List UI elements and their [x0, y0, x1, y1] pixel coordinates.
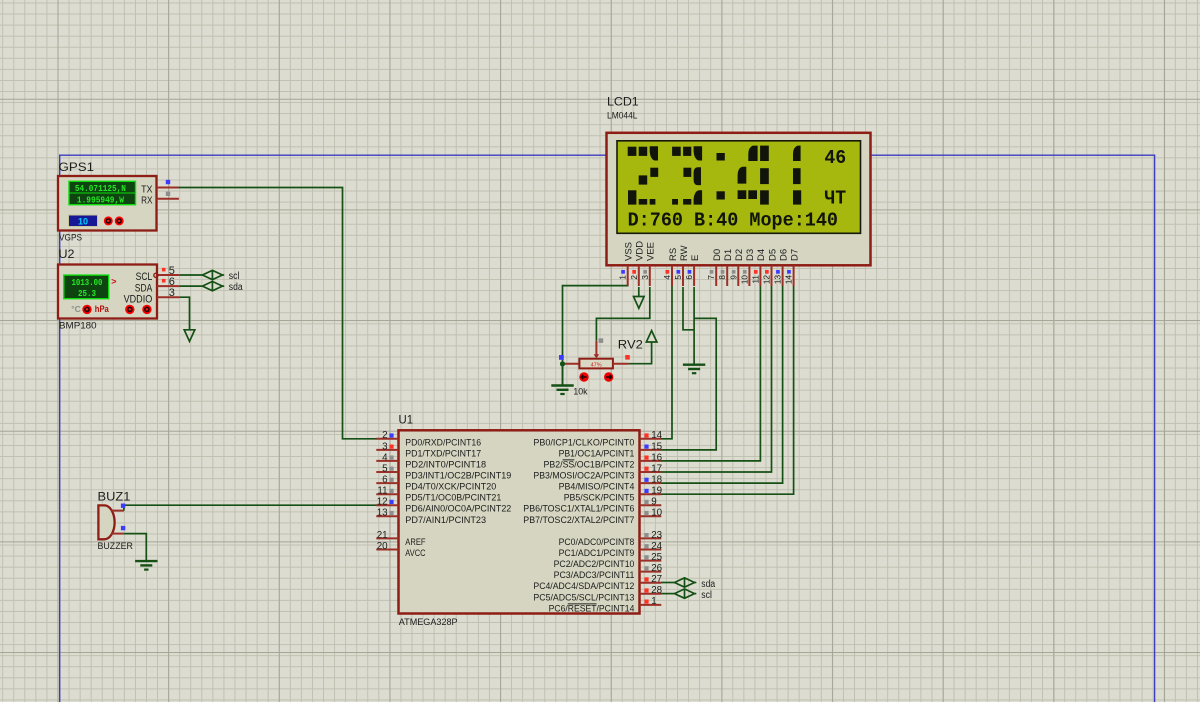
- svg-text:27: 27: [651, 574, 662, 585]
- U1 pin 20 AVCC: [376, 549, 398, 551]
- LCD1 pin 14 D7: [793, 266, 795, 286]
- svg-text:PB6/TOSC1/XTAL1/PCINT6: PB6/TOSC1/XTAL1/PCINT6: [523, 504, 634, 515]
- svg-text:LCD1: LCD1: [607, 97, 639, 109]
- svg-text:PC3/ADC3/PCINT11: PC3/ADC3/PCINT11: [554, 570, 635, 581]
- ground (buzzer): [135, 561, 157, 570]
- LCD1 pin 1 VSS: [627, 266, 629, 286]
- wire U2 VDDIO to power: [179, 297, 189, 330]
- svg-text:PB4/MISO/PCINT4: PB4/MISO/PCINT4: [559, 482, 635, 493]
- svg-text:PB3/MOSI/OC2A/PCINT3: PB3/MOSI/OC2A/PCINT3: [533, 471, 634, 482]
- svg-text:4: 4: [663, 275, 672, 280]
- svg-text:1: 1: [619, 275, 628, 280]
- LCD1 big digits 23:41: [628, 146, 802, 205]
- svg-text:17: 17: [651, 463, 662, 474]
- svg-text:RW: RW: [679, 245, 690, 261]
- LCD1 pin 4 RS: [671, 266, 673, 286]
- LCD1 pin 10 D3: [748, 266, 750, 286]
- svg-text:46: 46: [824, 147, 846, 169]
- U1 pin 4 PD2/INT0/PCINT18: [376, 460, 398, 462]
- svg-text:54.071125,N: 54.071125,N: [75, 183, 126, 194]
- U2 pin VDDIO (pin 3): [157, 296, 179, 298]
- svg-text:5: 5: [382, 463, 388, 474]
- wire U2 SCL to scl terminal: [179, 274, 202, 276]
- wire RV2 right terminal to power: [629, 342, 652, 364]
- svg-text:14: 14: [651, 430, 662, 441]
- wire BUZ1 top pin to U1 PD6: [124, 505, 377, 510]
- wire LCD D4 to U1 PB2: [661, 286, 760, 461]
- U1 pin 18 PB4/MISO/PCINT4: [640, 482, 662, 484]
- svg-text:26: 26: [651, 563, 662, 574]
- svg-text:PB0/ICP1/CLKO/PCINT0: PB0/ICP1/CLKO/PCINT0: [533, 437, 634, 448]
- wire RV2 left terminal rail: [563, 363, 580, 365]
- U1 pin 6 PD4/T0/XCK/PCINT20: [376, 482, 398, 484]
- LCD LCD1 LM044L body: [607, 133, 871, 265]
- svg-text:15: 15: [651, 441, 662, 452]
- U1 pin 1 PC6/RESET/PCINT14: [640, 604, 662, 606]
- GPS1 display: [69, 181, 136, 204]
- U2 display: [64, 275, 109, 299]
- svg-text:PB2/SS/OC1B/PCINT2: PB2/SS/OC1B/PCINT2: [544, 459, 635, 470]
- U1 pin 26 PC3/ADC3/PCINT11: [640, 571, 662, 573]
- svg-text:PD6/AIN0/OC0A/PCINT22: PD6/AIN0/OC0A/PCINT22: [405, 504, 511, 515]
- LCD1 pin 8 D1: [726, 266, 728, 286]
- RV2 wiper: [595, 341, 597, 355]
- svg-text:ЧТ: ЧТ: [824, 187, 846, 209]
- wire U1 PC4/SDA to sda terminal: [661, 582, 675, 584]
- svg-text:24: 24: [651, 541, 662, 552]
- svg-text:PB7/TOSC2/XTAL2/PCINT7: PB7/TOSC2/XTAL2/PCINT7: [523, 515, 634, 526]
- svg-text:PC2/ADC2/PCINT10: PC2/ADC2/PCINT10: [554, 559, 635, 570]
- U1 pin 14 PB0/ICP1/CLKO/PCINT0: [640, 438, 662, 440]
- LCD1 pin 2 VDD: [638, 266, 640, 286]
- U1 pin 16 PB2/SS/OC1B/PCINT2: [640, 460, 662, 462]
- svg-text:PD0/RXD/PCINT16: PD0/RXD/PCINT16: [405, 437, 481, 448]
- svg-text:RS: RS: [668, 248, 679, 261]
- LCD1 pin 12 D5: [771, 266, 773, 286]
- svg-text:RX: RX: [141, 196, 152, 207]
- svg-text:hPa: hPa: [95, 304, 110, 315]
- svg-text:13: 13: [377, 508, 388, 519]
- svg-text:BUZZER: BUZZER: [98, 541, 134, 551]
- svg-text:VGPS: VGPS: [59, 233, 82, 243]
- potentiometer RV2 body: [579, 359, 613, 369]
- terminal scl (U1 side): [675, 589, 695, 599]
- svg-text:scl: scl: [229, 271, 240, 282]
- buzzer BUZ1 body: [98, 505, 114, 539]
- svg-text:2: 2: [382, 430, 387, 441]
- LCD1 pin 11 D4: [759, 266, 761, 286]
- svg-text:3: 3: [169, 287, 175, 299]
- svg-text:GPS1: GPS1: [59, 162, 95, 174]
- svg-text:12: 12: [377, 497, 388, 508]
- svg-text:U2: U2: [59, 249, 75, 261]
- sensor U2 BMP180 body: [58, 265, 157, 319]
- wire U2 SDA to sda terminal: [179, 285, 202, 287]
- wire LCD VEE (pin3) to RV2 wiper: [596, 287, 649, 341]
- U1 pin 28 PC5/ADC5/SCL/PCINT13: [640, 593, 662, 595]
- svg-text:D7: D7: [789, 249, 800, 261]
- U2 pin SCL (pin 5): [157, 274, 179, 276]
- svg-text:ATMEGA328P: ATMEGA328P: [399, 617, 458, 628]
- svg-text:10: 10: [78, 216, 88, 226]
- svg-text:11: 11: [377, 486, 387, 497]
- wire LCD RS (pin4) to U1 PB0: [661, 286, 672, 439]
- svg-text:16: 16: [651, 452, 662, 463]
- svg-text:23: 23: [651, 530, 662, 541]
- svg-text:VDDIO: VDDIO: [124, 293, 153, 305]
- svg-text:3: 3: [382, 441, 388, 452]
- svg-text:D6: D6: [778, 249, 789, 261]
- svg-text:PC1/ADC1/PCINT9: PC1/ADC1/PCINT9: [559, 548, 635, 559]
- svg-text:scl: scl: [701, 590, 712, 601]
- svg-text:D0: D0: [712, 249, 723, 261]
- svg-text:10: 10: [740, 275, 749, 285]
- U1 pin 24 PC1/ADC1/PCINT9: [640, 549, 662, 551]
- svg-text:D1: D1: [723, 249, 734, 261]
- svg-text:4: 4: [382, 452, 388, 463]
- power terminal (RV2): [646, 331, 657, 342]
- U2 pin SDA (pin 6): [157, 285, 179, 287]
- svg-text:E: E: [690, 255, 701, 261]
- wire LCD RW (pin5) to ground: [683, 287, 694, 330]
- BUZ1 bottom pin: [111, 533, 124, 535]
- svg-text:PD2/INT0/PCINT18: PD2/INT0/PCINT18: [405, 459, 486, 470]
- RV2 right terminal: [613, 363, 629, 365]
- svg-text:12: 12: [763, 275, 772, 285]
- svg-text:10: 10: [651, 508, 662, 519]
- GPS module GPS1 body: [58, 176, 157, 231]
- GPS1 pin RX: [157, 198, 179, 200]
- svg-text:1.995949,W: 1.995949,W: [77, 195, 124, 206]
- svg-text:PC0/ADC0/PCINT8: PC0/ADC0/PCINT8: [559, 537, 635, 548]
- LCD1 pin 5 RW: [682, 266, 684, 286]
- svg-text:6: 6: [685, 275, 694, 280]
- terminal scl (U2 side): [202, 270, 222, 280]
- wire RV2 bottom rail to ground: [562, 364, 564, 385]
- svg-text:RV2: RV2: [618, 339, 643, 351]
- svg-text:sda: sda: [229, 282, 243, 293]
- svg-text:PD7/AIN1/PCINT23: PD7/AIN1/PCINT23: [405, 515, 486, 526]
- svg-text:11: 11: [751, 275, 760, 284]
- U1 pin 13 PD7/AIN1/PCINT23: [376, 515, 398, 517]
- MCU U1 ATMEGA328P body: [399, 430, 640, 613]
- svg-text:PD1/TXD/PCINT17: PD1/TXD/PCINT17: [405, 448, 481, 459]
- U1 pin 2 PD0/RXD/PCINT16: [376, 438, 398, 440]
- wire LCD E (pin6) to U1 PB1: [693, 287, 695, 364]
- LCD1 pin 6 E: [693, 266, 695, 286]
- svg-text:1013.00: 1013.00: [72, 277, 103, 288]
- svg-text:5: 5: [674, 275, 683, 280]
- LCD1 screen: [617, 141, 861, 234]
- wire U1 PC5/SCL to scl terminal: [661, 593, 675, 595]
- svg-text:19: 19: [651, 486, 662, 497]
- svg-text:LM044L: LM044L: [607, 110, 638, 120]
- U1 pin 5 PD3/INT1/OC2B/PCINT19: [376, 471, 398, 473]
- svg-text:TX: TX: [141, 184, 152, 195]
- svg-text:PC5/ADC5/SCL/PCINT13: PC5/ADC5/SCL/PCINT13: [533, 592, 634, 603]
- svg-text:13: 13: [774, 275, 783, 285]
- svg-text:VDD: VDD: [635, 241, 646, 261]
- LCD1 pin 13 D6: [782, 266, 784, 286]
- U1 pin 15 PB1/OC1A/PCINT1: [640, 449, 662, 451]
- LCD1 pin 9 D2: [737, 266, 739, 286]
- svg-text:18: 18: [651, 475, 662, 486]
- svg-text:AREF: AREF: [405, 537, 425, 548]
- svg-text:AVCC: AVCC: [405, 548, 425, 559]
- power terminal (LCD VDD): [634, 297, 645, 309]
- GPS1 value box: [69, 215, 98, 227]
- svg-text:PC4/ADC4/SDA/PCINT12: PC4/ADC4/SDA/PCINT12: [533, 581, 634, 592]
- svg-text:2: 2: [630, 275, 639, 280]
- svg-text:7: 7: [707, 275, 716, 280]
- svg-text:°C: °C: [71, 304, 81, 314]
- LCD1 pin 3 VEE: [649, 266, 651, 286]
- junction node (VSS/RV2/ground): [560, 361, 565, 366]
- U1 pin 23 PC0/ADC0/PCINT8: [640, 537, 662, 539]
- RV2 buttons: [579, 372, 588, 381]
- wire LCD VSS (pin1) to ground rail / RV2 node: [563, 284, 628, 385]
- svg-text:1: 1: [651, 596, 656, 607]
- svg-text:>: >: [111, 277, 116, 287]
- wire LCD D5 to U1 PB3: [661, 286, 772, 472]
- wire LCD D6 to U1 PB4: [661, 286, 783, 483]
- svg-text:3: 3: [641, 275, 650, 280]
- svg-text:sda: sda: [701, 579, 715, 590]
- svg-text:D3: D3: [745, 249, 756, 261]
- U1 pin 12 PD6/AIN0/OC0A/PCINT22: [376, 504, 398, 506]
- wire LCD VDD (pin2) to power: [638, 287, 640, 297]
- svg-text:21: 21: [377, 530, 388, 541]
- terminal sda (U1 side): [675, 578, 695, 588]
- svg-text:20: 20: [377, 541, 388, 552]
- svg-text:D:760 B:40 Море:140: D:760 B:40 Море:140: [628, 209, 838, 231]
- svg-text:PD3/INT1/OC2B/PCINT19: PD3/INT1/OC2B/PCINT19: [405, 471, 511, 482]
- LCD1 pin 7 D0: [715, 266, 717, 286]
- ground (RV2): [551, 386, 573, 395]
- svg-text:BUZ1: BUZ1: [98, 492, 131, 504]
- power terminal (U2 VDDIO): [184, 330, 195, 342]
- svg-text:28: 28: [651, 585, 662, 596]
- wire BUZ1 bottom pin to ground: [124, 534, 146, 561]
- svg-text:PB5/SCK/PCINT5: PB5/SCK/PCINT5: [564, 493, 635, 504]
- wire LCD D7 to U1 PB5: [661, 286, 794, 494]
- U1 pin 3 PD1/TXD/PCINT17: [376, 449, 398, 451]
- svg-text:25.3: 25.3: [78, 288, 96, 299]
- U2 buttons: [82, 305, 91, 314]
- svg-text:D2: D2: [734, 249, 745, 261]
- svg-text:PC6/RESET/PCINT14: PC6/RESET/PCINT14: [549, 603, 635, 614]
- svg-text:9: 9: [729, 275, 738, 280]
- svg-text:25: 25: [651, 552, 662, 563]
- GPS1 pin TX: [157, 187, 179, 189]
- svg-text:PB1/OC1A/PCINT1: PB1/OC1A/PCINT1: [559, 448, 635, 459]
- terminal sda (U2 side): [202, 281, 222, 291]
- svg-text:BMP180: BMP180: [59, 321, 97, 331]
- svg-text:VEE: VEE: [646, 242, 657, 261]
- svg-text:9: 9: [651, 497, 656, 508]
- BUZ1 top pin: [111, 510, 124, 512]
- svg-text:PD4/T0/XCK/PCINT20: PD4/T0/XCK/PCINT20: [405, 482, 496, 493]
- svg-text:14: 14: [785, 275, 794, 285]
- RV2 left terminal: [559, 355, 564, 360]
- svg-text:10k: 10k: [573, 387, 588, 397]
- svg-text:D5: D5: [767, 249, 778, 261]
- GPS1 buttons: [104, 216, 113, 225]
- svg-text:VSS: VSS: [624, 242, 635, 261]
- U1 pin 10 PB7/TOSC2/XTAL2/PCINT7: [640, 515, 662, 517]
- wire GPS1 TX to U1 PD0/RXD: [179, 188, 377, 439]
- svg-text:6: 6: [382, 475, 388, 486]
- svg-text:U1: U1: [399, 414, 414, 426]
- U1 pin 9 PB6/TOSC1/XTAL1/PCINT6: [640, 504, 662, 506]
- svg-text:D4: D4: [756, 249, 767, 261]
- U1 pin 25 PC2/ADC2/PCINT10: [640, 560, 662, 562]
- U1 pin 17 PB3/MOSI/OC2A/PCINT3: [640, 471, 662, 473]
- ground (LCD RW): [683, 365, 705, 374]
- U1 pin 21 AREF: [376, 537, 398, 539]
- svg-text:PD5/T1/OC0B/PCINT21: PD5/T1/OC0B/PCINT21: [405, 493, 501, 504]
- U1 pin 27 PC4/ADC4/SDA/PCINT12: [640, 582, 662, 584]
- svg-text:47%: 47%: [591, 362, 602, 368]
- U1 pin 11 PD5/T1/OC0B/PCINT21: [376, 493, 398, 495]
- svg-text:8: 8: [718, 275, 727, 280]
- U1 pin 19 PB5/SCK/PCINT5: [640, 493, 662, 495]
